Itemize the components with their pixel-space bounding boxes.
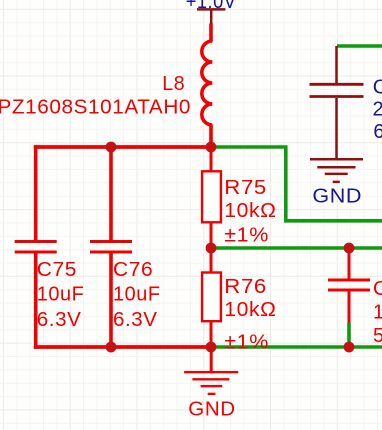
svg-text:C75: C75 <box>37 259 77 281</box>
svg-text:GND: GND <box>312 185 362 207</box>
svg-text:+1.0V: +1.0V <box>186 0 237 13</box>
svg-text:10uF: 10uF <box>113 284 161 306</box>
svg-text:C78: C78 <box>373 278 382 300</box>
svg-text:10uF: 10uF <box>37 284 85 306</box>
svg-text:6.3V: 6.3V <box>113 309 158 331</box>
svg-text:C74: C74 <box>373 76 382 98</box>
svg-text:R75: R75 <box>224 177 267 199</box>
svg-text:6.3V: 6.3V <box>373 121 382 143</box>
svg-text:C76: C76 <box>113 259 153 281</box>
svg-text:L8: L8 <box>162 73 185 95</box>
svg-text:10uF: 10uF <box>373 301 382 323</box>
svg-text:10kΩ: 10kΩ <box>224 200 276 222</box>
svg-text:±1%: ±1% <box>224 331 269 353</box>
svg-text:GND: GND <box>188 398 235 420</box>
svg-text:6.3V: 6.3V <box>37 309 82 331</box>
svg-text:2.2uF: 2.2uF <box>373 99 382 121</box>
svg-text:PZ1608S101ATAH0: PZ1608S101ATAH0 <box>0 97 191 119</box>
svg-text:R76: R76 <box>224 276 267 298</box>
svg-text:±1%: ±1% <box>224 224 269 246</box>
svg-text:10kΩ: 10kΩ <box>224 299 276 321</box>
svg-text:5V: 5V <box>373 325 382 347</box>
